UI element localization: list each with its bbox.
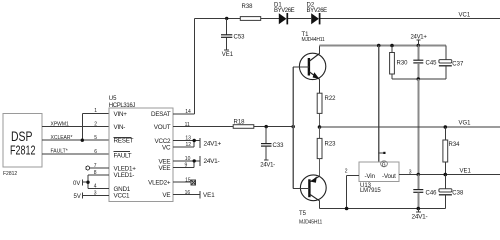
svg-text:VIN-: VIN- [114,124,126,131]
svg-text:R22: R22 [325,96,337,102]
capacitor C33 [261,127,284,160]
diode D2 BYV26E [307,3,328,25]
svg-text:F2812: F2812 [3,171,17,177]
svg-text:24V1-: 24V1- [260,162,275,168]
svg-text:VC: VC [162,144,171,151]
power 0V [73,175,88,188]
U5 right pin numbers [185,109,192,196]
capacitor C38 [439,175,464,209]
U5 left pin labels [114,111,137,200]
junction rail C45 [417,44,421,48]
svg-text:VOUT: VOUT [154,124,171,131]
DSP block U-F2812 [3,114,42,167]
svg-text:XCLEAR*: XCLEAR* [51,135,73,141]
junction pin13 [193,139,196,142]
svg-text:R30: R30 [397,60,409,66]
junction base line [292,125,295,128]
svg-text:24V1-: 24V1- [412,213,428,220]
wire vertical x418 down to VE1 rail [417,79,419,175]
svg-text:VE1: VE1 [222,52,234,58]
power 24V1+ at U5 [200,138,221,148]
svg-text:-Vin: -Vin [365,173,376,180]
wire XPWM1 (DSP to U5 pin 2) [42,121,109,127]
svg-text:MJD45H11: MJD45H11 [299,219,322,225]
wire pin14 DESAT up to top rail [173,18,194,114]
svg-text:FAULT: FAULT [114,153,132,160]
svg-text:5: 5 [94,135,97,141]
junction bottom flag [417,207,421,211]
wire RC bottom tie [392,78,446,80]
resistor R30 [390,46,409,80]
capacitor C46 [413,175,437,209]
resistor R18 [233,119,254,128]
resistor R34 [443,127,460,175]
svg-text:6: 6 [94,149,97,155]
junction on XCLEAR* [81,139,84,142]
svg-text:24V1-: 24V1- [204,158,220,165]
junction emitter node [318,125,322,129]
svg-text:C45: C45 [426,60,438,66]
capacitor C37 [439,46,464,80]
diode D1 BYV26E [274,3,295,25]
svg-text:C33: C33 [273,143,285,149]
wire top VC1 net [194,17,500,19]
power 24V1- under C33 [260,160,275,168]
svg-text:VE1: VE1 [460,168,472,174]
svg-text:VIN+: VIN+ [114,111,128,118]
wire 24V1- bottom rail [320,208,446,210]
wire pin8 to 0V [88,174,109,176]
wire pin1 branch from XCLEAR* [82,114,109,141]
wire pin16 VE to VE1 flag [173,194,200,196]
svg-text:VLED1-: VLED1- [114,172,135,179]
junction VE1 C46 [417,173,421,177]
wire XCLEAR* (DSP to U5 pin 5) [42,135,109,141]
svg-text:C37: C37 [452,61,464,67]
svg-text:R18: R18 [234,119,246,125]
svg-text:BYV26E: BYV26E [307,8,328,14]
junction pin10 [193,159,196,162]
junction tie C45 [417,77,421,81]
svg-text:LM7915: LM7915 [360,188,381,194]
svg-text:1: 1 [94,108,97,114]
junction VE1 C38 [444,173,448,177]
capacitor C53 [221,18,245,50]
svg-text:F2812: F2812 [10,142,36,157]
svg-text:VC1: VC1 [459,13,471,19]
svg-text:BYV26E: BYV26E [274,8,295,14]
svg-text:RESET: RESET [114,138,134,145]
wire U13 pin2 [345,168,359,208]
svg-text:MJD44H11: MJD44H11 [302,37,325,43]
transistor T1 MJD44H11 [293,32,326,93]
wire VG1 rail [320,126,500,128]
wire pins 13/12 to 24V1+ flag [173,141,200,148]
svg-text:U5: U5 [109,96,117,102]
resistor R23 [317,138,336,158]
svg-text:VEE: VEE [158,165,170,172]
junction U13 pin2 bottom [345,207,349,211]
junction rail R30 [390,44,394,48]
wire R22 to node [319,113,321,127]
wire base line T1-T5 [292,67,294,189]
svg-text:0V: 0V [73,181,80,187]
svg-text:R34: R34 [449,142,461,148]
regulator U13 LM7915 [359,161,399,194]
svg-text:XPWM1: XPWM1 [51,121,70,127]
svg-text:VLED2+: VLED2+ [148,179,171,186]
junction C33 [265,125,268,128]
power 24V1- bottom flag [412,209,428,221]
svg-text:2: 2 [94,122,97,128]
wire pins 10/9 to 24V1- flag [173,161,200,168]
wire vertical x379 down to U13 [378,46,380,163]
svg-text:VCC1: VCC1 [114,193,131,200]
junction rail x379 [377,44,381,48]
svg-text:C53: C53 [234,35,246,41]
wire R18 to base node [254,126,293,128]
U5 right pin labels [148,111,171,199]
svg-text:HCPL316J: HCPL316J [109,103,136,109]
junction R34 top [444,125,448,129]
svg-text:-Vout: -Vout [382,173,396,180]
resistor R38 [240,4,260,20]
wire FAULT* (DSP to U5 pin 6) [42,149,109,155]
wire pin4 GND1 [88,187,109,189]
capacitor C45 [413,46,437,80]
junction 0V [86,181,89,184]
svg-text:2: 2 [345,168,348,174]
svg-text:5V: 5V [74,194,81,200]
node pin7 open terminal [86,166,109,170]
svg-text:VE: VE [162,192,170,199]
power VE1 at U5 [200,191,215,199]
wire VE1 rail (U13 pin3) [399,170,500,176]
svg-text:R23: R23 [325,142,337,148]
resistor R22 [317,93,336,113]
svg-text:C46: C46 [426,191,438,197]
transistor T5 MJD45H11 [293,159,326,226]
no-connect pin15 [173,180,196,185]
power VE1 under C53 [222,50,234,58]
IC U5 HCPL316J gate driver body [109,96,173,201]
svg-text:T5: T5 [299,211,307,217]
junction C53 top [225,17,228,20]
wire pin11 VOUT to R18 [173,126,233,128]
power 24V1- at U5 [200,156,219,166]
svg-text:DESAT: DESAT [151,111,171,118]
svg-text:VE1: VE1 [203,192,215,199]
power 5V [74,192,110,200]
wire node to R23 [319,127,321,138]
svg-text:G: G [382,162,386,168]
svg-text:24V1+: 24V1+ [204,141,222,148]
pin1 tick on U13 gnd wire [379,152,386,154]
svg-text:FAULT*: FAULT* [51,149,68,155]
svg-text:R38: R38 [242,4,254,10]
power 24V1+ flag above rail [411,35,428,46]
svg-text:VG1: VG1 [459,121,472,127]
svg-text:C38: C38 [452,191,464,197]
U5 left pin numbers [94,108,98,196]
wire 24V1+ rail (collector T1) [320,45,446,47]
